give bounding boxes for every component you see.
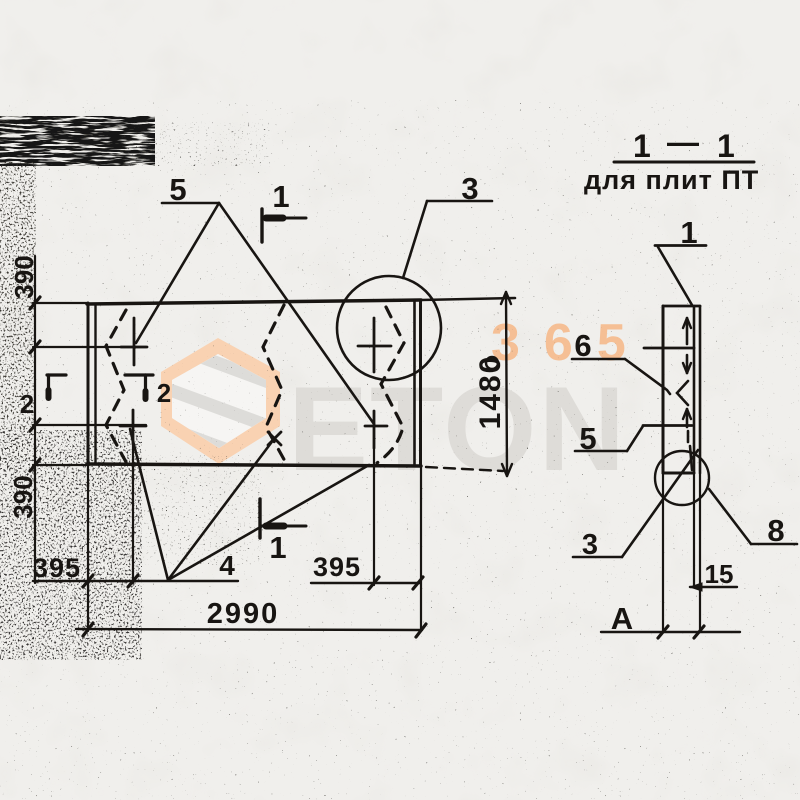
detail circle — [337, 276, 441, 380]
below slab — [662, 473, 664, 632]
lifting loop crosses — [120, 318, 391, 448]
2990 dim — [76, 629, 422, 630]
label 4 leaders — [130, 429, 168, 580]
detail circle — [655, 451, 709, 505]
svg-text:для плит ПТ: для плит ПТ — [584, 165, 759, 195]
label 3 leader — [427, 200, 492, 203]
svg-text:5: 5 — [579, 421, 596, 456]
title underline — [614, 161, 754, 164]
strand (dashed) — [686, 318, 689, 344]
svg-text:390: 390 — [8, 475, 38, 518]
label 5 leaders — [162, 202, 219, 205]
label 6 leader — [572, 358, 625, 361]
svg-text:2990: 2990 — [207, 598, 280, 630]
label 8 leader — [751, 543, 797, 546]
svg-text:4: 4 — [219, 550, 235, 581]
svg-text:395: 395 — [313, 552, 361, 582]
section text — [574, 124, 784, 636]
svg-text:2: 2 — [20, 389, 34, 419]
A dim — [601, 631, 740, 633]
svg-text:8: 8 — [767, 513, 784, 548]
section marker 1 (top) — [260, 209, 263, 242]
section marker 2 (right) — [125, 373, 153, 376]
395 right dim — [311, 582, 420, 584]
svg-text:15: 15 — [705, 559, 734, 589]
svg-text:3: 3 — [461, 171, 478, 206]
svg-text:3: 3 — [582, 529, 598, 561]
hexagon ring — [161, 338, 280, 464]
15 dim — [690, 586, 737, 588]
svg-text:390: 390 — [9, 255, 39, 298]
395 left dim — [33, 580, 238, 582]
svg-text:1: 1 — [680, 215, 697, 250]
slab outline — [87, 300, 421, 304]
artifact circle — [486, 357, 498, 369]
svg-text:5: 5 — [169, 172, 186, 207]
transverse bars — [644, 347, 694, 350]
svg-text:395: 395 — [33, 553, 81, 583]
1480 dim — [506, 292, 507, 476]
section slab — [662, 306, 665, 473]
svg-text:1480: 1480 — [474, 355, 507, 430]
svg-text:6: 6 — [574, 328, 591, 363]
label 3 leader — [573, 556, 622, 559]
svg-text:2: 2 — [157, 378, 171, 408]
svg-text:1: 1 — [272, 179, 289, 214]
left dimension column — [34, 256, 36, 583]
joint keys (dashed zigzags) — [106, 310, 126, 462]
section marker 2 (left) — [47, 373, 66, 376]
svg-text:А: А — [611, 601, 633, 636]
svg-text:1: 1 — [269, 530, 286, 565]
extension verticals — [132, 444, 134, 583]
label 5 leader — [575, 450, 627, 453]
svg-text:—: — — [667, 124, 699, 160]
section marker 1 (bottom) — [258, 499, 261, 538]
marker 1 — [655, 244, 706, 247]
svg-text:1: 1 — [633, 128, 651, 164]
plan text — [8, 171, 507, 630]
svg-text:1: 1 — [717, 128, 735, 164]
